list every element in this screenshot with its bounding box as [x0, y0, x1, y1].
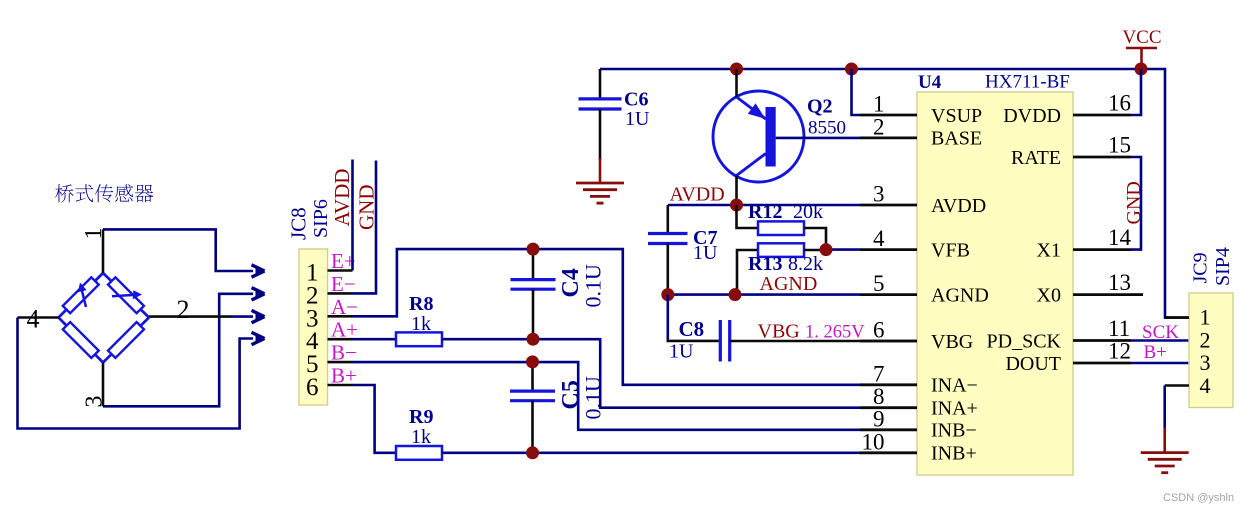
svg-text:JC8: JC8: [287, 207, 311, 240]
U4 pin 5 AGND stub: [860, 293, 917, 296]
svg-text:INB−: INB−: [931, 420, 977, 442]
svg-text:R9: R9: [409, 406, 433, 428]
svg-text:AVDD: AVDD: [670, 184, 725, 206]
bridge gauge arrow top-left: [81, 287, 86, 307]
svg-text:6: 6: [306, 374, 319, 401]
svg-text:15: 15: [1108, 133, 1131, 158]
transistor Q2 circle: [713, 91, 804, 182]
JC8 pin 1 stub: [328, 269, 353, 272]
U4 pin 14 X1 stub: [1073, 248, 1131, 251]
connector JC9 body: [1189, 293, 1233, 408]
JC8 pin 5 stub: [328, 361, 353, 364]
capacitor C7 lead bottom: [666, 244, 669, 295]
resistor R12 body: [758, 221, 804, 235]
wire node2 to arrow row 3: [232, 315, 254, 318]
U4 pin 8 INA+ stub: [860, 406, 917, 409]
wire node3 to arrow row 2: [103, 294, 253, 407]
svg-text:VBG: VBG: [758, 321, 800, 343]
svg-text:0.1U: 0.1U: [581, 376, 606, 420]
svg-text:VBG: VBG: [931, 331, 973, 353]
svg-text:20k: 20k: [793, 201, 823, 223]
bridge pin stub node 1: [102, 229, 105, 273]
svg-text:2: 2: [177, 295, 190, 324]
wire B+ net: R9 to INB+: [442, 451, 860, 454]
svg-text:12: 12: [1108, 339, 1131, 364]
arrow into JC8 pin 1: [252, 265, 265, 271]
wire PD_SCK to JC9 pin 2: [1131, 339, 1189, 342]
svg-text:AGND: AGND: [931, 284, 989, 306]
svg-text:JC9: JC9: [1190, 252, 1212, 283]
svg-text:2: 2: [1200, 328, 1211, 353]
ground stem bottom right: [1163, 428, 1166, 453]
JC9 pin 1 stub: [1165, 316, 1189, 319]
svg-text:INA−: INA−: [931, 375, 978, 397]
U4 pin 12 DOUT stub: [1073, 362, 1131, 365]
svg-text:1U: 1U: [669, 341, 694, 363]
svg-text:11: 11: [1108, 316, 1130, 341]
junction A+ / C4 / R8: [527, 333, 540, 346]
U4 pin 3 AVDD stub: [860, 204, 917, 207]
svg-text:6: 6: [873, 318, 885, 343]
svg-text:DOUT: DOUT: [1005, 353, 1061, 375]
svg-text:CSDN @yshln: CSDN @yshln: [1163, 492, 1234, 504]
wire JC9 pin 4 to ground: [1163, 386, 1166, 429]
svg-text:10: 10: [862, 429, 885, 454]
svg-text:HX711-BF: HX711-BF: [985, 72, 1070, 93]
svg-text:VFB: VFB: [931, 239, 970, 261]
svg-text:SCK: SCK: [1142, 322, 1179, 343]
capacitor C8 lead right to VBG pin: [730, 340, 917, 343]
resistor R13 lead left: [737, 250, 758, 295]
svg-text:AVDD: AVDD: [931, 195, 986, 217]
svg-text:1: 1: [873, 92, 885, 117]
bridge resistor bottom-left: [63, 322, 99, 358]
svg-text:X0: X0: [1037, 284, 1061, 306]
JC8 pin 4 stub: [328, 338, 353, 341]
capacitor C7 plates: [648, 232, 688, 235]
capacitor C5 lead bottom: [531, 401, 534, 453]
JC8 pin 2 stub: [328, 292, 353, 295]
svg-text:3: 3: [873, 182, 885, 207]
svg-text:1: 1: [1200, 305, 1211, 330]
bridge resistor bottom-right: [108, 322, 144, 358]
wire VFB node to VFB pin: [826, 248, 860, 251]
wire RATE to X1 (GND net): [1131, 157, 1141, 250]
Q2 collector wire to AVDD node: [735, 176, 738, 206]
U4 pin 7 INA− stub: [860, 383, 917, 386]
svg-text:B+: B+: [1144, 342, 1167, 363]
Q2 base wire to BASE pin: [776, 137, 860, 140]
svg-text:SIP4: SIP4: [1212, 247, 1234, 286]
svg-text:1k: 1k: [411, 426, 431, 448]
svg-text:1k: 1k: [411, 313, 431, 335]
svg-text:13: 13: [1108, 270, 1131, 295]
capacitor C6 lead top: [599, 69, 602, 99]
junction B- / C5: [526, 355, 539, 368]
wire VSUP drop from rail: [852, 69, 861, 115]
U4 pin 6 VBG stub: [860, 340, 917, 343]
resistor R13 body: [758, 243, 804, 257]
svg-text:4: 4: [27, 305, 40, 334]
svg-text:PD_SCK: PD_SCK: [987, 330, 1062, 352]
JC8 pin 6 stub: [328, 384, 353, 387]
X0 stub extension: [1131, 293, 1143, 296]
bridge resistor top-right (strain gauge): [108, 277, 144, 313]
junction VCC / DVDD: [1135, 63, 1148, 76]
wire B- net: across to INB-: [353, 362, 861, 430]
svg-text:RATE: RATE: [1011, 147, 1061, 169]
capacitor C4 plates: [511, 278, 556, 281]
title 桥式传感器 (bridge sensor label): [55, 184, 153, 202]
bridge pin stub node 2: [149, 315, 232, 318]
svg-text:Q2: Q2: [807, 96, 833, 118]
JC9 pin 4 stub: [1165, 384, 1189, 387]
ground symbol bottom right: [1141, 451, 1189, 454]
wire E- to GND stub: [353, 161, 377, 294]
capacitor C6 plates: [579, 97, 622, 100]
U4 pin 9 INB− stub: [860, 428, 917, 431]
wire node1 to arrow row 1: [103, 229, 253, 271]
svg-text:X1: X1: [1037, 239, 1061, 261]
svg-text:DVDD: DVDD: [1003, 105, 1061, 127]
ground stem below C6: [599, 158, 602, 183]
wire A+ net: R8 to C4 to INA+: [442, 339, 860, 408]
resistor R8 body: [396, 332, 442, 346]
svg-text:VCC: VCC: [1122, 27, 1161, 48]
svg-text:3: 3: [1200, 350, 1211, 375]
junction AGND / R13: [729, 288, 742, 301]
power rail VCC (top): [600, 69, 1189, 318]
U4 pin 2 BASE stub: [860, 136, 917, 139]
bridge resistor top-left (strain gauge): [63, 277, 99, 313]
wire A+ to R8: [353, 338, 397, 341]
svg-text:INB+: INB+: [931, 443, 977, 465]
svg-text:R8: R8: [409, 293, 433, 315]
op-amp U4 HX711-BF body: [917, 92, 1073, 475]
svg-text:R13: R13: [748, 253, 782, 275]
svg-text:7: 7: [873, 361, 885, 386]
arrow into JC8 pin 2: [252, 288, 265, 294]
svg-text:8550: 8550: [808, 118, 846, 139]
resistor R12 lead left: [737, 205, 759, 228]
capacitor C7 lead top: [666, 205, 669, 234]
capacitor C5 lead top: [531, 362, 534, 392]
svg-text:R12: R12: [748, 201, 782, 223]
U4 pin 16 DVDD stub: [1073, 114, 1131, 117]
U4 pin 11 PD_SCK stub: [1073, 339, 1131, 342]
svg-text:C8: C8: [679, 317, 705, 341]
arrow into JC8 pin 3: [252, 310, 265, 316]
svg-text:INA+: INA+: [931, 398, 978, 420]
svg-text:BASE: BASE: [931, 128, 982, 150]
svg-text:AGND: AGND: [760, 273, 818, 295]
arrow into JC8 pin 4: [252, 332, 265, 338]
svg-text:1U: 1U: [625, 108, 650, 130]
svg-text:U4: U4: [918, 72, 942, 93]
U4 pin 1 VSUP stub: [860, 114, 917, 117]
svg-text:5: 5: [873, 271, 885, 296]
svg-text:SIP6: SIP6: [310, 199, 332, 238]
junction AGND / C7: [661, 288, 674, 301]
wire DOUT to JC9 pin 3: [1131, 362, 1189, 365]
svg-text:0.1U: 0.1U: [581, 264, 606, 308]
capacitor C4 lead bottom: [532, 289, 535, 339]
Q2 emitter diagonal with arrow: [737, 97, 766, 119]
Q2 emitter wire from rail: [735, 69, 738, 98]
Q2 base bar: [766, 107, 776, 167]
junction rail / Q2 emitter: [730, 63, 743, 76]
svg-text:9: 9: [873, 406, 885, 431]
wire AGND row to AGND pin: [668, 293, 860, 296]
bridge pin stub node 3: [102, 363, 105, 407]
capacitor C8 lead left: [666, 295, 669, 340]
svg-text:4: 4: [873, 226, 885, 251]
svg-text:GND: GND: [1123, 181, 1145, 224]
svg-text:1. 265V: 1. 265V: [805, 323, 865, 343]
bridge diamond edges: [59, 273, 150, 363]
U4 pin 15 RATE stub: [1073, 156, 1131, 159]
U4 pin 13 X0 stub: [1073, 293, 1131, 296]
resistor R9 body: [396, 446, 442, 460]
U4 pin 4 VFB stub: [860, 248, 917, 251]
junction rail / VSUP: [845, 63, 858, 76]
wire AVDD row to AVDD pin: [668, 204, 860, 207]
wire DVDD up to VCC rail: [1131, 69, 1141, 115]
svg-text:4: 4: [1200, 373, 1211, 398]
capacitor C6 lead bottom: [599, 109, 602, 160]
junction VFB node: [820, 243, 833, 256]
bridge gauge arrow top-right: [112, 295, 134, 296]
U4 pin 10 INB+ stub: [860, 451, 917, 454]
junction B+ / C5 / R9: [526, 446, 539, 459]
JC8 pin 3 stub: [328, 315, 353, 318]
wire B+ down to R9: [353, 385, 397, 453]
capacitor C5 plates: [510, 390, 555, 393]
capacitor C4 lead top: [532, 249, 535, 280]
svg-text:1U: 1U: [693, 242, 718, 264]
wire A- net: up and across to INA-: [353, 249, 861, 385]
bridge pin stub node 4: [18, 316, 59, 319]
svg-text:AVDD: AVDD: [330, 169, 354, 227]
wire E+ up to AVDD stub: [351, 160, 354, 271]
svg-text:2: 2: [873, 114, 885, 139]
junction A- / C4: [527, 243, 540, 256]
connector JC8 body: [299, 249, 328, 405]
capacitor C8 plates: [719, 320, 722, 362]
svg-text:14: 14: [1108, 225, 1132, 250]
resistor R12 lead right: [804, 228, 826, 250]
junction AVDD node: [730, 199, 743, 212]
resistor R13 lead right: [804, 249, 826, 252]
svg-text:16: 16: [1108, 91, 1131, 116]
svg-text:8.2k: 8.2k: [788, 253, 823, 275]
ground symbol below C6: [576, 182, 624, 185]
wire node4 to arrow row 4: [18, 318, 254, 429]
svg-text:VSUP: VSUP: [931, 105, 982, 127]
Q2 collector diagonal: [737, 154, 766, 176]
